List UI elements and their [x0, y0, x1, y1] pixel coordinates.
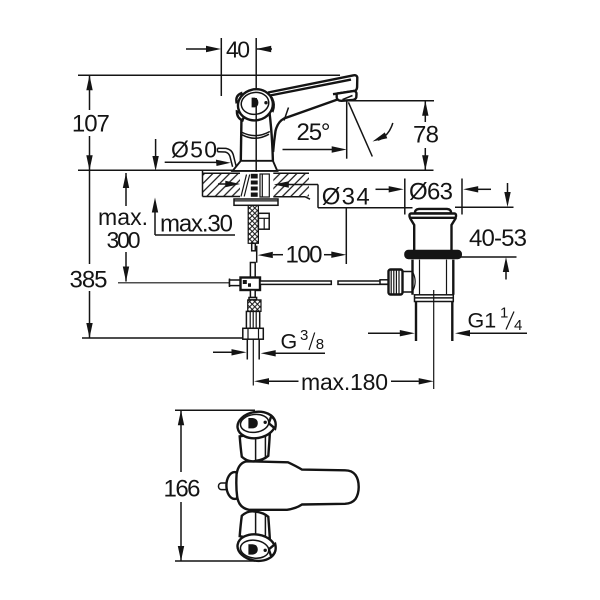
svg-text:4: 4	[514, 317, 522, 334]
svg-text:1: 1	[500, 305, 508, 322]
svg-text:166: 166	[164, 476, 201, 503]
svg-text:G1: G1	[468, 309, 497, 333]
svg-text:25°: 25°	[297, 119, 331, 146]
svg-text:78: 78	[413, 122, 439, 149]
svg-text:100: 100	[286, 242, 323, 269]
svg-text:max.180: max.180	[301, 369, 388, 395]
svg-text:8: 8	[316, 336, 324, 353]
svg-text:3: 3	[300, 327, 308, 344]
svg-text:max.30: max.30	[160, 211, 233, 238]
svg-text:300: 300	[107, 227, 141, 253]
svg-text:40-53: 40-53	[469, 225, 527, 252]
svg-text:Ø50: Ø50	[171, 136, 217, 162]
svg-text:40: 40	[226, 37, 250, 63]
svg-text:Ø34: Ø34	[322, 184, 370, 211]
svg-text:107: 107	[72, 111, 110, 138]
svg-text:Ø63: Ø63	[409, 178, 453, 205]
svg-text:385: 385	[70, 266, 108, 293]
svg-text:G: G	[281, 329, 298, 353]
